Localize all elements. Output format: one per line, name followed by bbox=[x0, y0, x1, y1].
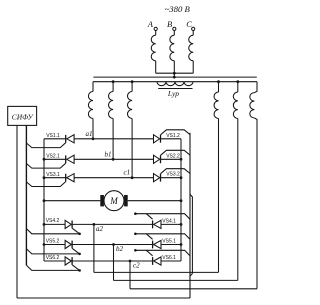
gate terminal dot VS4.2 bbox=[78, 233, 81, 236]
gate terminal dot VS5.2 bbox=[78, 253, 81, 256]
svg-text:a1: a1 bbox=[86, 130, 93, 138]
svg-text:b2: b2 bbox=[116, 245, 124, 253]
svg-text:A: A bbox=[147, 19, 154, 29]
svg-text:Lур: Lур bbox=[167, 89, 179, 98]
wire star bus to winding a1 bbox=[92, 82, 94, 92]
junction on right bus bbox=[180, 158, 183, 161]
wire winding a1 to node a1 bbox=[92, 119, 94, 139]
gate terminal dot VS6.1 bbox=[134, 249, 137, 252]
wire winding c1 to node c1 bbox=[131, 119, 133, 178]
anode wire VS6.2 bbox=[44, 260, 65, 262]
junction on left bus bbox=[43, 223, 46, 226]
svg-text:C: C bbox=[186, 19, 192, 29]
SIFU output wire 2 left gate bus bbox=[25, 125, 27, 265]
wire motor to right bus bbox=[128, 200, 181, 202]
gate lead VS6.1 bbox=[146, 250, 152, 256]
wire winding b1 to node b1 bbox=[112, 119, 114, 160]
svg-text:b1: b1 bbox=[105, 150, 112, 158]
gate wire VS6.2 bbox=[26, 265, 79, 270]
svg-text:VS1.1: VS1.1 bbox=[46, 133, 60, 139]
wire star bus to winding b1 bbox=[112, 82, 114, 92]
parallel feed joins gate bus bbox=[190, 274, 192, 277]
thyristor VS6.1 bbox=[152, 257, 154, 265]
row wire node a2 bbox=[72, 223, 153, 225]
secondary winding b2 bbox=[233, 92, 237, 118]
gate wire VS3.2 over label bbox=[161, 169, 191, 174]
wire winding a2 down right side bbox=[218, 119, 220, 273]
junction winding a2 on star bus bbox=[217, 80, 220, 83]
svg-text:VS1.2: VS1.2 bbox=[166, 133, 180, 139]
motor brush right bbox=[124, 195, 128, 206]
anode wire VS6.1 bbox=[161, 260, 181, 262]
thyristor VS4.1 bbox=[152, 221, 154, 229]
gate wire VS2.2 over label bbox=[161, 150, 191, 155]
svg-text:VS4.1: VS4.1 bbox=[162, 218, 176, 224]
junction on left bus bbox=[43, 158, 46, 161]
svg-text:VS4.2: VS4.2 bbox=[46, 218, 60, 224]
row wire node a1 bbox=[74, 138, 153, 140]
thyristor VS5.2 bbox=[65, 240, 71, 248]
wire node a2 down bbox=[93, 224, 95, 272]
gate terminal dot VS6.2 bbox=[78, 269, 81, 272]
left common bus bbox=[43, 139, 45, 261]
wire star bus to winding b2 bbox=[237, 82, 239, 92]
svg-text:СИФУ: СИФУ bbox=[12, 113, 34, 122]
svg-text:c2: c2 bbox=[133, 262, 140, 270]
junction primary star point bbox=[173, 72, 176, 75]
parallel gate feed wire bbox=[190, 194, 192, 273]
junction winding b2 on star bus bbox=[236, 80, 239, 83]
junction on top bus bbox=[173, 76, 176, 79]
cathode wire VS3.2 bbox=[161, 177, 182, 179]
cathode wire VS1.2 bbox=[161, 138, 182, 140]
motor brush left bbox=[100, 195, 104, 206]
control unit SIFU box bbox=[8, 106, 37, 125]
gate wire VS5.2 bbox=[26, 249, 79, 254]
secondary star bus wire bbox=[93, 81, 257, 83]
gate wire VS4.1 bbox=[135, 214, 190, 220]
thyristor VS1.2 bbox=[154, 135, 160, 143]
row wire node c2 bbox=[72, 260, 153, 262]
terminal circle phase A bbox=[154, 27, 157, 30]
svg-text:VS2.1: VS2.1 bbox=[46, 154, 60, 160]
gate wire VS1.1 bbox=[26, 143, 65, 148]
transformer primary winding phase C bbox=[189, 35, 193, 61]
svg-text:M: M bbox=[109, 196, 118, 206]
junction on left bus bbox=[43, 243, 46, 246]
wire terminal C to winding bbox=[192, 31, 194, 36]
svg-text:VS6.1: VS6.1 bbox=[162, 255, 176, 261]
anode wire VS4.1 bbox=[161, 223, 181, 225]
primary star-point connector wire bbox=[156, 72, 194, 74]
row wire node b1 bbox=[74, 158, 153, 160]
wire star bus to winding a2 bbox=[218, 82, 220, 92]
terminal circle phase C bbox=[192, 27, 195, 30]
Lur core line bbox=[158, 88, 192, 90]
secondary winding c2 bbox=[250, 93, 255, 118]
terminal circle phase B bbox=[173, 27, 176, 30]
SIFU output wire 1 down left side bbox=[16, 125, 18, 298]
gate lead VS5.2 bbox=[72, 248, 79, 254]
wrap wire node c2 bottom bbox=[130, 288, 257, 290]
svg-text:VS2.2: VS2.2 bbox=[166, 153, 180, 159]
svg-text:VS6.2: VS6.2 bbox=[46, 255, 60, 261]
wire winding A to star point bbox=[155, 61, 157, 73]
secondary winding a1 bbox=[88, 92, 93, 119]
thyristor VS2.2 bbox=[154, 155, 160, 163]
thyristor VS1.1 bbox=[65, 135, 67, 143]
secondary winding a2 bbox=[214, 92, 218, 118]
transformer primary winding phase B bbox=[170, 35, 174, 61]
wire winding B to star point bbox=[173, 61, 175, 73]
junction node a1 bbox=[92, 137, 95, 140]
junction on right bus bbox=[180, 223, 183, 226]
cathode wire VS1.1 bbox=[44, 138, 66, 140]
svg-text:VS5.1: VS5.1 bbox=[162, 239, 176, 245]
junction node b2 bbox=[112, 243, 115, 246]
wire star point to top bus bbox=[173, 73, 175, 77]
junction node c1 bbox=[131, 176, 134, 179]
junction on left bus bbox=[43, 176, 46, 179]
gate wire VS5.1 bbox=[135, 234, 190, 240]
wire terminal B to winding bbox=[173, 31, 175, 36]
gate lead VS5.1 bbox=[146, 234, 152, 240]
svg-text:c1: c1 bbox=[124, 169, 131, 177]
anode wire VS4.2 bbox=[44, 223, 65, 225]
wire winding C to star point bbox=[192, 61, 194, 73]
wrap wire node b2 bottom bbox=[114, 279, 238, 281]
anode wire VS5.2 bbox=[44, 244, 65, 246]
motor M armature circle bbox=[104, 191, 124, 211]
junction winding c1 on star bus bbox=[131, 80, 134, 83]
svg-text:~380 В: ~380 В bbox=[165, 4, 191, 14]
svg-text:VS5.2: VS5.2 bbox=[46, 238, 60, 244]
wire winding c2 down right side bbox=[254, 118, 257, 289]
cathode wire VS2.2 bbox=[161, 158, 182, 160]
wire winding b2 down right side bbox=[237, 119, 239, 281]
cathode wire VS2.1 bbox=[44, 158, 66, 160]
svg-text:VS3.2: VS3.2 bbox=[166, 172, 180, 178]
anode wire VS5.1 bbox=[161, 244, 181, 246]
cathode wire VS3.1 bbox=[44, 177, 66, 179]
gate wire VS3.1 bbox=[26, 182, 65, 187]
transformer primary winding phase A bbox=[151, 35, 155, 61]
junction node b1 bbox=[112, 158, 115, 161]
svg-text:VS3.1: VS3.1 bbox=[46, 172, 60, 178]
junction on right bus bbox=[180, 176, 183, 179]
wire node b2 down bbox=[113, 245, 115, 281]
wire node c2 down bbox=[129, 261, 131, 289]
gate lead VS4.2 bbox=[72, 228, 79, 234]
junction node a2 bbox=[93, 223, 96, 226]
row wire node c1 bbox=[74, 177, 153, 179]
junction winding b1 on star bus bbox=[112, 80, 115, 83]
junction node c2 bbox=[129, 260, 132, 263]
junction motor on right bus bbox=[180, 199, 183, 202]
gate terminal dot VS5.1 bbox=[134, 233, 137, 236]
secondary winding b1 bbox=[109, 92, 114, 119]
svg-text:a2: a2 bbox=[96, 225, 104, 233]
right gate bus bbox=[189, 133, 191, 298]
thyristor VS6.2 bbox=[65, 257, 71, 265]
wrap wire node a2 bottom bbox=[94, 271, 219, 273]
gate wire VS2.1 bbox=[26, 163, 65, 168]
equalizing reactor Lur winding bbox=[157, 82, 193, 86]
gate lead VS6.2 bbox=[72, 265, 79, 271]
gate wire VS1.2 over label bbox=[161, 130, 191, 135]
svg-text:B: B bbox=[167, 19, 172, 29]
secondary winding c1 bbox=[128, 92, 133, 119]
row wire node b2 bbox=[72, 244, 153, 246]
wire star bus to winding c1 bbox=[131, 82, 133, 92]
gate wire VS6.1 bbox=[135, 250, 190, 256]
gate wire VS4.2 bbox=[26, 229, 79, 234]
junction on right bus bbox=[180, 243, 183, 246]
wire terminal A to winding bbox=[155, 31, 157, 36]
thyristor VS2.1 bbox=[65, 155, 67, 163]
right common bus bbox=[180, 139, 182, 261]
thyristor VS3.1 bbox=[65, 174, 67, 182]
wire left bus to motor bbox=[44, 200, 100, 202]
thyristor VS5.1 bbox=[152, 241, 154, 249]
gate terminal dot VS4.1 bbox=[134, 212, 137, 215]
thyristor VS3.2 bbox=[154, 174, 160, 182]
SIFU wire 1 along bottom bbox=[17, 297, 190, 299]
gate lead VS4.1 bbox=[146, 214, 152, 220]
wire star bus corner to winding c2 bbox=[254, 82, 257, 93]
top horizontal bus wire bbox=[93, 76, 256, 78]
junction on left bus bbox=[43, 199, 46, 202]
thyristor VS4.2 bbox=[65, 220, 71, 228]
